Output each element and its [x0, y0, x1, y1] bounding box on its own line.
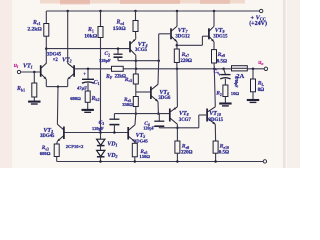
bottom terminal — [263, 160, 266, 163]
node VT4 collector / C2 — [135, 59, 138, 62]
svg-text:(+24V): (+24V) — [249, 20, 267, 27]
svg-text:3DG15: 3DG15 — [213, 35, 228, 40]
resistor RF horizontal — [112, 66, 124, 71]
svg-text:VT4: VT4 — [138, 42, 148, 48]
svg-text:10kΩ: 10kΩ — [84, 33, 98, 39]
wire rail to VT9 collector — [213, 11, 215, 26]
wire VT6 collector up to node — [157, 61, 160, 85]
wire Re10 to bottom rail — [215, 153, 217, 161]
wire rail to VT7 collector — [176, 11, 178, 26]
wire mid line down to VT8 collector — [176, 69, 178, 107]
transistor VT6 — [150, 87, 152, 100]
capacitor C1 electrolytic — [87, 69, 89, 79]
node dots on top rail — [66, 10, 69, 13]
ground for Rb1 — [28, 101, 40, 103]
svg-text:680Ω: 680Ω — [40, 151, 51, 156]
wire mid line down to VT10 collector — [214, 69, 215, 107]
svg-text:VT9: VT9 — [215, 28, 225, 34]
wire node to Rc5 — [135, 69, 137, 74]
node VT5 collector line — [135, 112, 138, 115]
wire VT1 emitter down-bend to tail node — [45, 79, 47, 86]
resistor Re10 — [213, 141, 218, 153]
svg-text:VD2: VD2 — [107, 153, 117, 159]
resistor Rb1 — [32, 83, 37, 97]
wire mid line to output fuse — [136, 68, 232, 70]
wire VT2 emitter to tail node — [67, 79, 69, 86]
wire bias line VT3 base to VT5 base — [64, 132, 127, 134]
svg-text:2A: 2A — [236, 73, 244, 80]
wire VT5-collector to VT8 base — [114, 113, 169, 115]
svg-text:VT7: VT7 — [178, 28, 189, 34]
wire fuse to output terminal — [247, 68, 264, 70]
capacitor C3 — [113, 114, 115, 119]
wire R1 top — [100, 11, 102, 27]
svg-text:330Ω: 330Ω — [122, 102, 133, 107]
wire VT2 collector up to rail — [67, 11, 69, 64]
wire VT7 emitter to VT9 base staircase — [177, 44, 203, 46]
resistor Re8 — [175, 141, 180, 153]
node VT1 collector / VT4 base wire — [45, 47, 48, 50]
wire Re7 to mid line — [176, 63, 178, 69]
wire Rc4 top — [135, 11, 137, 21]
ground for R2 — [219, 102, 231, 104]
wire RL to ground — [252, 92, 254, 100]
node tail junction — [57, 85, 60, 88]
wire VT8 emitter down — [176, 124, 178, 141]
svg-text:220Ω: 220Ω — [181, 150, 193, 155]
resistor Re5 330 — [133, 97, 138, 107]
svg-text:3DG15: 3DG15 — [209, 118, 224, 123]
capacitor C2 — [117, 49, 119, 54]
svg-text:VT10: VT10 — [209, 111, 221, 117]
fuse 2A — [232, 66, 248, 71]
svg-text:8Ω: 8Ω — [258, 88, 265, 93]
svg-text:680Ω: 680Ω — [70, 96, 81, 101]
wire Rb2 to ground — [87, 102, 89, 109]
node C1 tap — [87, 68, 90, 71]
wire Rc1 top — [45, 11, 47, 24]
resistor Re3 — [54, 144, 59, 157]
node C4 / VT10 base tap — [176, 127, 179, 130]
wire VT1-collector to VT4 base — [46, 48, 129, 50]
node Rb1 tap — [33, 71, 36, 74]
svg-text:VT8: VT8 — [179, 111, 189, 117]
wire R1 down to diode bias node — [100, 38, 102, 133]
wire VT10 emitter to Re10 — [214, 124, 216, 141]
node dots on bottom rail — [99, 160, 102, 163]
wire Re5 down to node — [135, 107, 137, 114]
wire VT3 emitter to Re3 — [56, 141, 59, 144]
capacitor C4 — [158, 114, 160, 121]
wire Rb1 top — [33, 72, 35, 83]
svg-text:120pF: 120pF — [92, 126, 104, 131]
wire C5 to R2 — [224, 79, 226, 85]
wire Re9 to mid line — [213, 63, 215, 69]
wire top +Vcc rail — [46, 10, 259, 12]
output terminal uo — [264, 67, 267, 70]
wire tail down to VT3 — [56, 87, 59, 125]
svg-text:VT3: VT3 — [43, 128, 53, 134]
svg-text:+: + — [218, 74, 221, 79]
power terminal +Vcc — [260, 9, 263, 12]
resistor R1 — [98, 27, 103, 38]
svg-text:+: + — [83, 73, 86, 78]
wire C2 bottom link — [118, 60, 136, 62]
wire Rc5 to Re5 — [135, 84, 137, 97]
wire VT7 emitter node — [176, 42, 178, 49]
wire to bottom rail — [134, 157, 136, 162]
svg-text:RF: RF — [105, 74, 113, 80]
wire VT2 base feedback line — [75, 68, 112, 70]
wire C4 bottom to VT10 base staircase — [159, 127, 199, 129]
wire C1 to Rb2 — [87, 83, 89, 91]
wire VD1 to VD2 — [100, 146, 102, 151]
svg-text:VT2: VT2 — [62, 58, 72, 64]
svg-text:3CG5: 3CG5 — [135, 48, 148, 53]
wire VT4-collector node to VT6 collector column — [136, 60, 159, 62]
diode VD2 — [97, 150, 105, 156]
svg-text:3CG7: 3CG7 — [179, 118, 192, 123]
svg-text:3DG45: 3DG45 — [47, 52, 62, 57]
svg-text:Rc4: Rc4 — [116, 20, 125, 26]
wire VT5 collector up — [134, 114, 137, 125]
svg-text:120pF: 120pF — [99, 58, 111, 63]
svg-text:3DG45: 3DG45 — [40, 134, 55, 139]
transistor VT9 — [208, 28, 210, 39]
ground for RL — [247, 99, 259, 101]
wire mid node to C5 — [224, 69, 226, 74]
svg-text:C1: C1 — [94, 80, 100, 86]
wire Rc4 to VT4 emitter — [135, 32, 137, 39]
resistor Rc1 — [44, 24, 49, 37]
wire Rc1 bottom to VT1 collector — [45, 36, 47, 63]
svg-text:VD1: VD1 — [107, 142, 117, 148]
input terminal ui — [17, 70, 20, 73]
resistor Re9 — [212, 50, 217, 63]
transistor VT4 pnp — [129, 41, 131, 52]
wire input to VT1 base — [21, 71, 41, 73]
resistor R2 — [223, 85, 228, 97]
svg-text:150Ω: 150Ω — [113, 26, 126, 32]
wire RL top — [252, 69, 254, 79]
svg-text:0.5Ω: 0.5Ω — [219, 150, 229, 155]
node mid-line junctions — [135, 68, 138, 71]
transistor VT1 — [40, 65, 42, 77]
wire VT6 base tap — [136, 91, 150, 93]
wire VT4 collector down — [135, 55, 137, 69]
svg-text:3DG12: 3DG12 — [175, 35, 190, 40]
wire Re3 to bottom rail — [56, 157, 58, 162]
resistor Re5 150 — [132, 143, 137, 157]
transistor VT3 — [63, 127, 65, 140]
wire VD2 to bottom rail — [100, 157, 102, 162]
wire RF right to node — [123, 68, 136, 70]
svg-text:10Ω: 10Ω — [231, 91, 240, 96]
transistor VT2 — [73, 65, 75, 77]
svg-text:Rb1: Rb1 — [16, 86, 25, 92]
ground for Rb2 — [82, 109, 94, 111]
wire VT6 emitter down — [157, 102, 159, 114]
transistor VT10 — [206, 109, 208, 122]
node RL tap — [252, 68, 255, 71]
svg-text:Rc1: Rc1 — [32, 20, 41, 26]
svg-text:×2: ×2 — [53, 58, 59, 63]
svg-text:150Ω: 150Ω — [139, 154, 150, 159]
svg-text:2.2kΩ: 2.2kΩ — [27, 27, 42, 33]
svg-text:120pF: 120pF — [143, 126, 155, 131]
resistor RL — [251, 79, 256, 92]
wire R2 to ground — [224, 97, 226, 104]
wire bottom rail — [57, 161, 264, 163]
svg-text:VT1: VT1 — [23, 64, 33, 70]
svg-text:3DG6: 3DG6 — [158, 96, 171, 101]
wire VT5 emitter to Re5-150 — [134, 142, 136, 144]
svg-text:47μF: 47μF — [77, 86, 87, 91]
transistor VT7 — [170, 28, 172, 39]
svg-text:uo: uo — [258, 60, 263, 66]
svg-text:2CP10×2: 2CP10×2 — [66, 144, 84, 149]
wire bias node to VD1 — [100, 133, 102, 140]
capacitor C5 electrolytic — [220, 74, 230, 76]
resistor Rc4 — [133, 21, 138, 32]
resistor Re7 — [174, 49, 179, 63]
wire Rb1 to ground — [33, 97, 35, 101]
wire Re8 to bottom rail — [176, 153, 178, 161]
svg-text:220Ω: 220Ω — [180, 59, 192, 64]
resistor Rc5 — [133, 74, 138, 84]
transistor VT5 — [127, 127, 129, 140]
svg-text:Rb2: Rb2 — [91, 96, 100, 102]
transistor VT8 pnp — [169, 109, 171, 122]
resistor Rb2 — [85, 91, 90, 102]
diode VD1 — [97, 139, 105, 145]
svg-text:0.5Ω: 0.5Ω — [217, 59, 227, 64]
wire VT7 base to drive node — [159, 33, 170, 35]
wire VT9 emitter to Re9 — [213, 42, 215, 50]
